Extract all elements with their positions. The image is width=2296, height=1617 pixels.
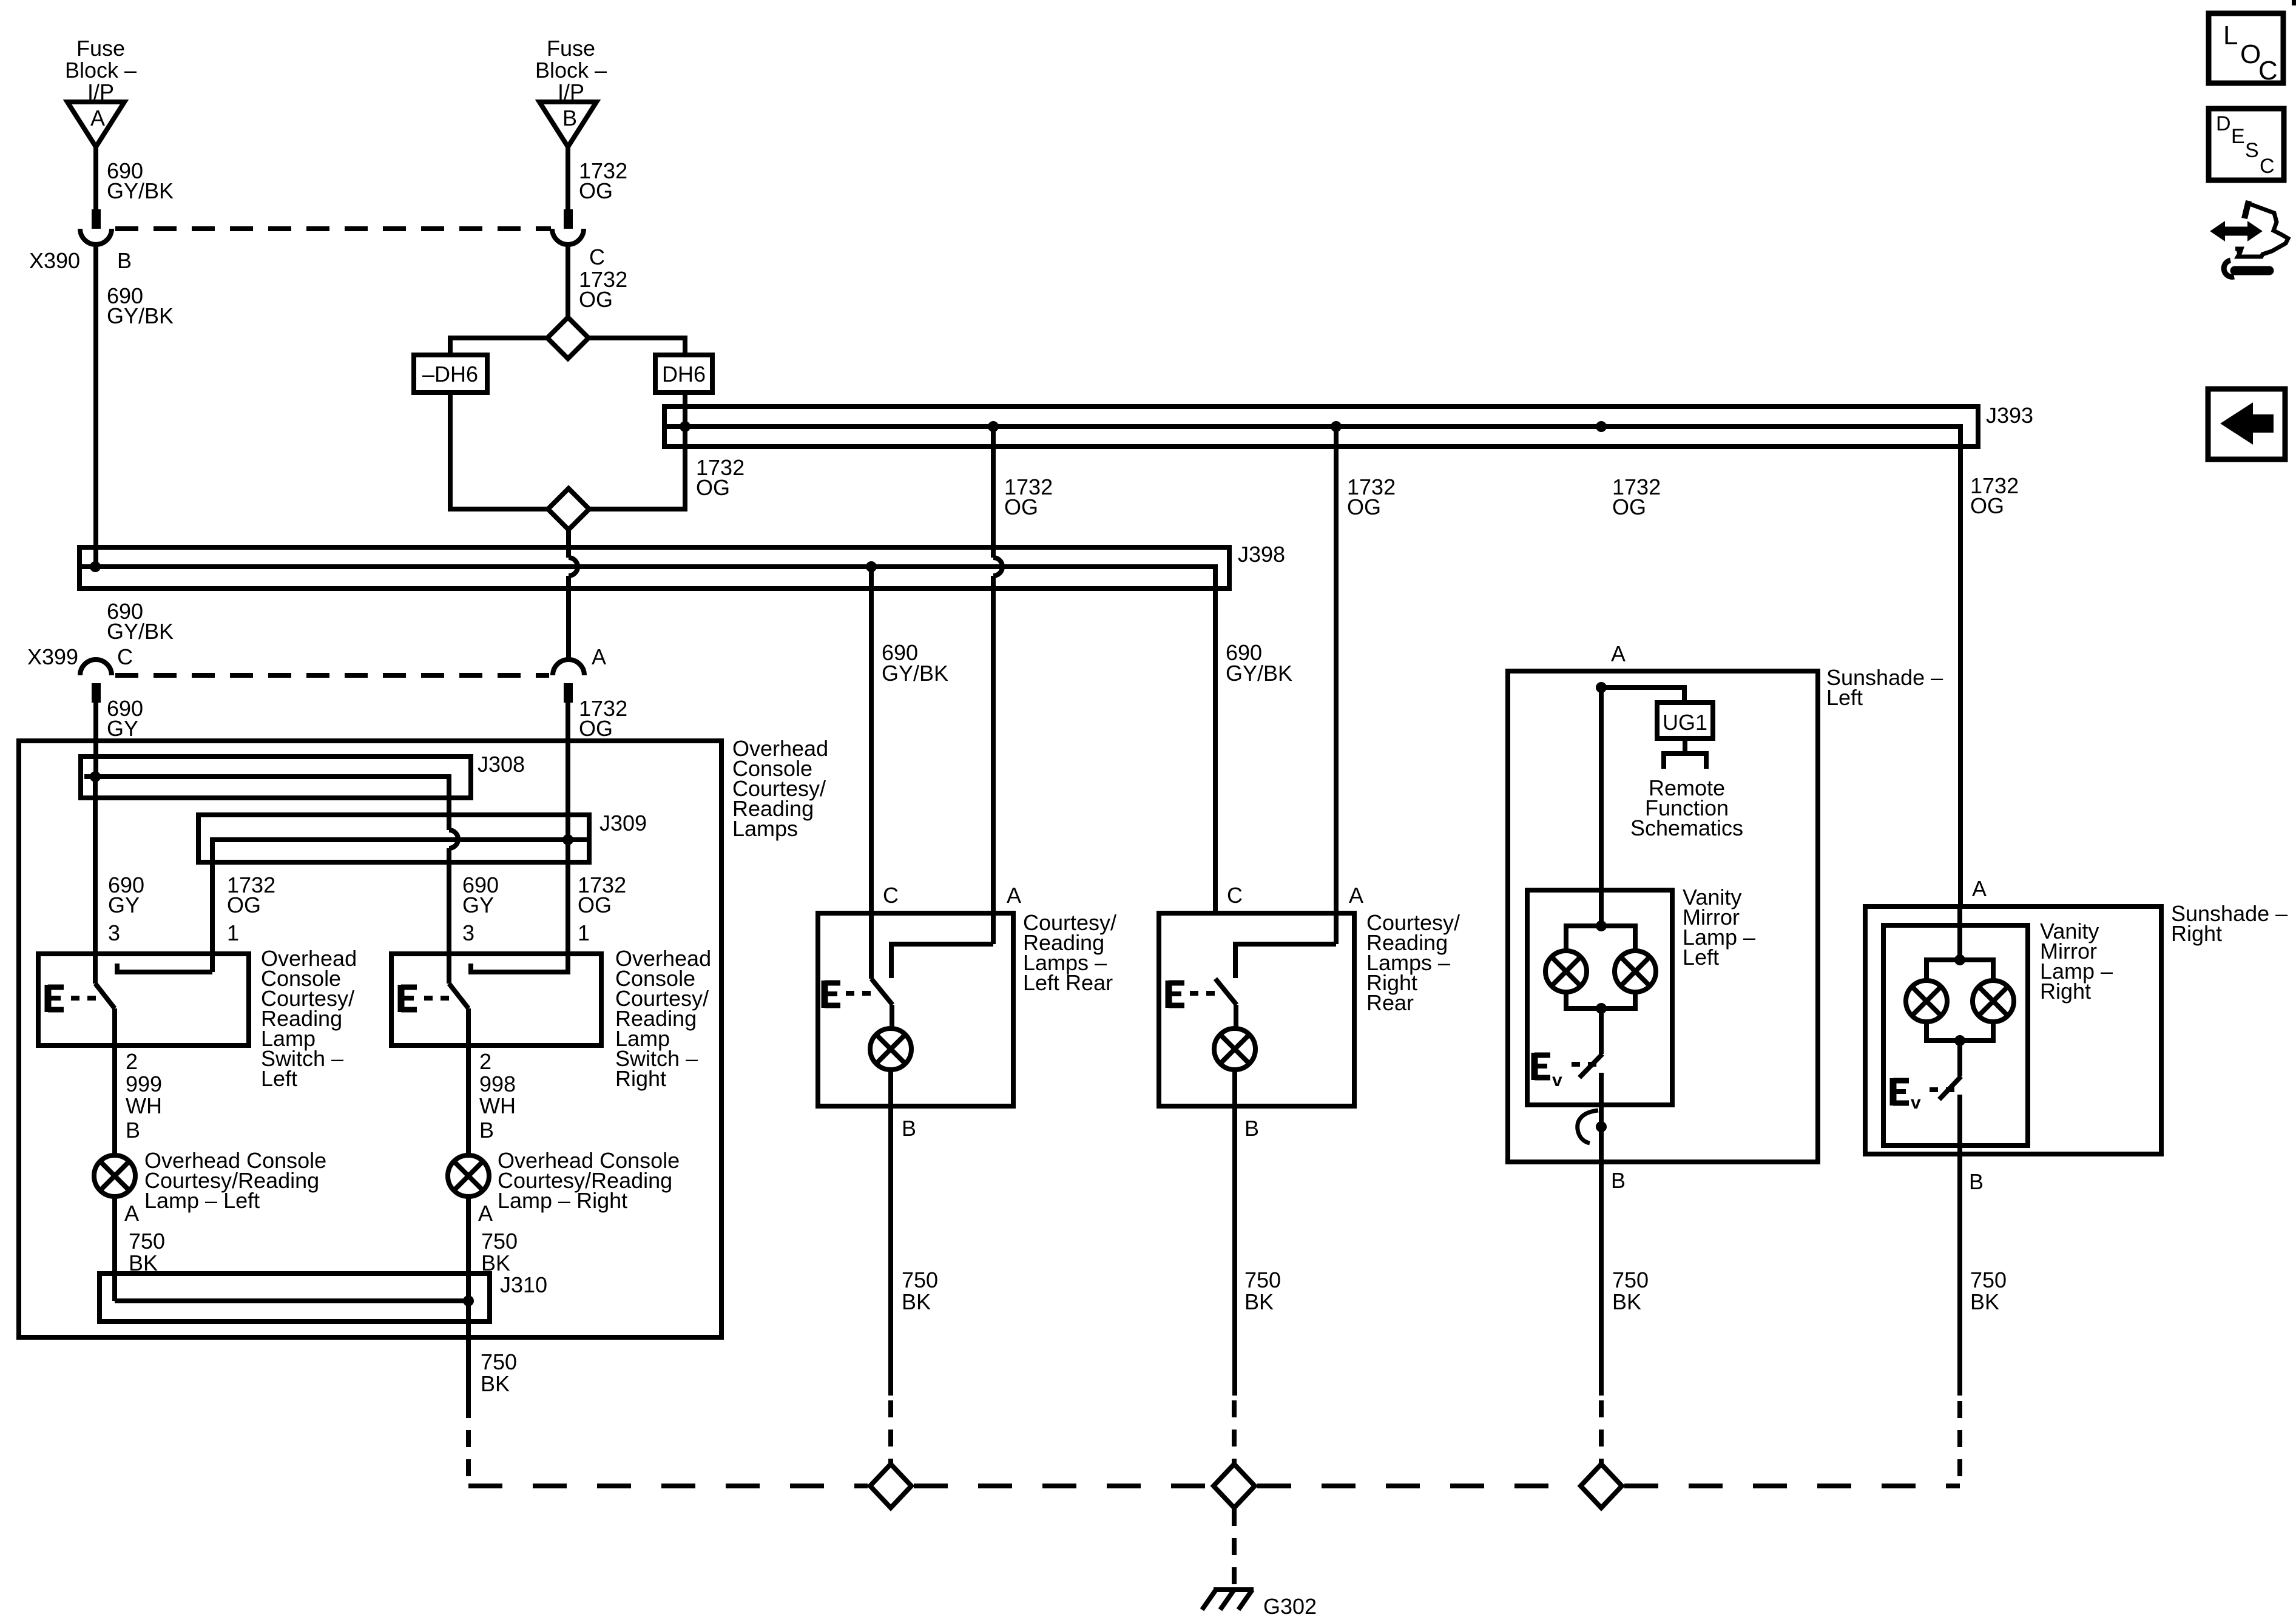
svg-text:E: E (2231, 125, 2245, 148)
svg-text:750: 750 (1970, 1268, 2007, 1292)
svg-text:Right: Right (615, 1066, 666, 1091)
svg-text:X399: X399 (27, 644, 78, 669)
svg-text:A: A (1972, 876, 1987, 901)
svg-text:999: 999 (126, 1072, 162, 1096)
svg-text:Fuse: Fuse (547, 36, 595, 61)
svg-text:OG: OG (579, 716, 613, 741)
svg-text:750: 750 (1244, 1268, 1281, 1292)
svg-text:D: D (2216, 112, 2231, 135)
svg-text:2: 2 (126, 1049, 138, 1074)
svg-text:OG: OG (227, 893, 261, 917)
svg-text:BK: BK (1244, 1289, 1274, 1314)
svg-text:J398: J398 (1238, 542, 1285, 567)
svg-text:A: A (592, 644, 606, 669)
svg-text:750: 750 (129, 1229, 165, 1254)
svg-text:GY: GY (462, 893, 494, 917)
svg-text:B: B (117, 248, 132, 273)
svg-text:G302: G302 (1263, 1594, 1317, 1617)
svg-text:C: C (117, 644, 133, 669)
svg-text:BK: BK (1970, 1289, 1999, 1314)
svg-text:A: A (1007, 883, 1021, 908)
svg-text:–DH6: –DH6 (422, 362, 478, 387)
svg-text:BK: BK (1612, 1289, 1641, 1314)
svg-text:Lamp – Left: Lamp – Left (144, 1188, 260, 1213)
svg-text:WH: WH (479, 1093, 516, 1118)
svg-text:Lamps: Lamps (732, 816, 798, 841)
svg-text:3: 3 (462, 920, 474, 945)
svg-text:UG1: UG1 (1663, 710, 1707, 735)
svg-text:GY/BK: GY/BK (107, 619, 174, 644)
svg-text:B: B (126, 1118, 140, 1143)
svg-text:Fuse: Fuse (76, 36, 125, 61)
svg-text:A: A (1611, 641, 1626, 666)
svg-text:Left: Left (1826, 685, 1863, 710)
svg-text:B: B (1244, 1116, 1259, 1141)
svg-text:998: 998 (479, 1072, 516, 1096)
svg-text:C: C (2258, 56, 2278, 86)
svg-text:Rear: Rear (1366, 990, 1414, 1015)
svg-text:A: A (90, 106, 105, 130)
svg-text:GY: GY (108, 893, 140, 917)
svg-text:750: 750 (1612, 1268, 1649, 1292)
svg-text:GY/BK: GY/BK (1226, 661, 1292, 686)
svg-text:L: L (2223, 21, 2238, 50)
svg-text:2: 2 (479, 1049, 491, 1074)
svg-text:J308: J308 (478, 752, 525, 777)
svg-text:Schematics: Schematics (1630, 815, 1743, 840)
svg-text:C: C (2260, 155, 2275, 178)
svg-text:Left Rear: Left Rear (1023, 970, 1113, 995)
svg-text:GY/BK: GY/BK (107, 303, 174, 328)
svg-text:GY/BK: GY/BK (882, 661, 948, 686)
svg-text:C: C (883, 883, 899, 908)
svg-text:OG: OG (579, 287, 613, 312)
svg-text:A: A (124, 1201, 139, 1226)
svg-text:GY: GY (107, 716, 138, 741)
svg-text:OG: OG (1612, 495, 1646, 519)
svg-text:Left: Left (261, 1066, 297, 1091)
svg-text:BK: BK (481, 1371, 510, 1396)
svg-text:C: C (589, 245, 605, 269)
svg-text:Block –: Block – (535, 58, 607, 83)
svg-text:B: B (902, 1116, 916, 1141)
svg-text:OG: OG (1970, 493, 2004, 518)
svg-text:J393: J393 (1986, 403, 2033, 428)
svg-text:WH: WH (126, 1093, 162, 1118)
svg-text:Right: Right (2040, 979, 2091, 1004)
svg-text:S: S (2245, 139, 2259, 162)
svg-text:A: A (1349, 883, 1363, 908)
svg-text:BK: BK (902, 1289, 931, 1314)
svg-text:B: B (1611, 1168, 1626, 1193)
svg-text:B: B (479, 1118, 494, 1143)
svg-text:Right: Right (2171, 921, 2222, 946)
svg-text:Lamp – Right: Lamp – Right (498, 1188, 627, 1213)
svg-text:3: 3 (108, 920, 120, 945)
svg-text:J309: J309 (599, 811, 647, 836)
svg-text:C: C (1227, 883, 1243, 908)
svg-text:1: 1 (227, 920, 239, 945)
svg-text:GY/BK: GY/BK (107, 178, 174, 203)
svg-text:DH6: DH6 (662, 362, 706, 387)
svg-text:X390: X390 (29, 248, 80, 273)
svg-text:Block –: Block – (65, 58, 137, 83)
svg-text:v: v (1552, 1070, 1562, 1090)
svg-text:OG: OG (1347, 495, 1381, 519)
svg-text:Left: Left (1683, 945, 1719, 970)
svg-text:A: A (478, 1201, 493, 1226)
svg-text:750: 750 (481, 1349, 517, 1374)
svg-text:750: 750 (902, 1268, 938, 1292)
svg-text:OG: OG (1004, 495, 1038, 519)
svg-text:750: 750 (481, 1229, 518, 1254)
svg-text:1: 1 (578, 920, 590, 945)
svg-text:OG: OG (578, 893, 612, 917)
svg-text:OG: OG (579, 178, 613, 203)
svg-text:J310: J310 (500, 1272, 547, 1297)
svg-text:v: v (1911, 1093, 1921, 1113)
svg-text:B: B (1969, 1169, 1984, 1194)
svg-text:OG: OG (696, 475, 730, 500)
svg-text:B: B (562, 106, 577, 130)
